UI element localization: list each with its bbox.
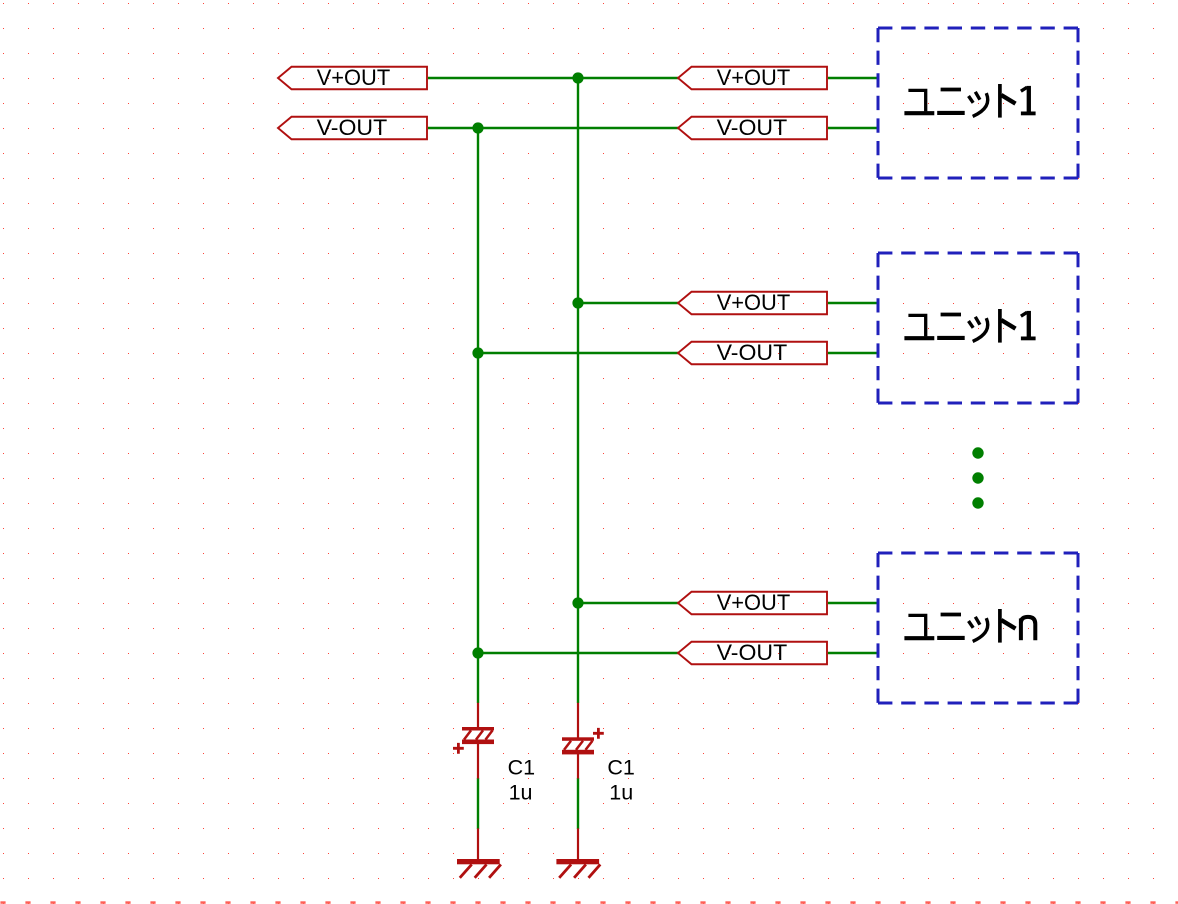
svg-text:C1: C1 [607,756,634,780]
svg-text:1u: 1u [609,780,633,804]
svg-text:C1: C1 [508,756,535,780]
svg-text:1u: 1u [509,780,533,804]
